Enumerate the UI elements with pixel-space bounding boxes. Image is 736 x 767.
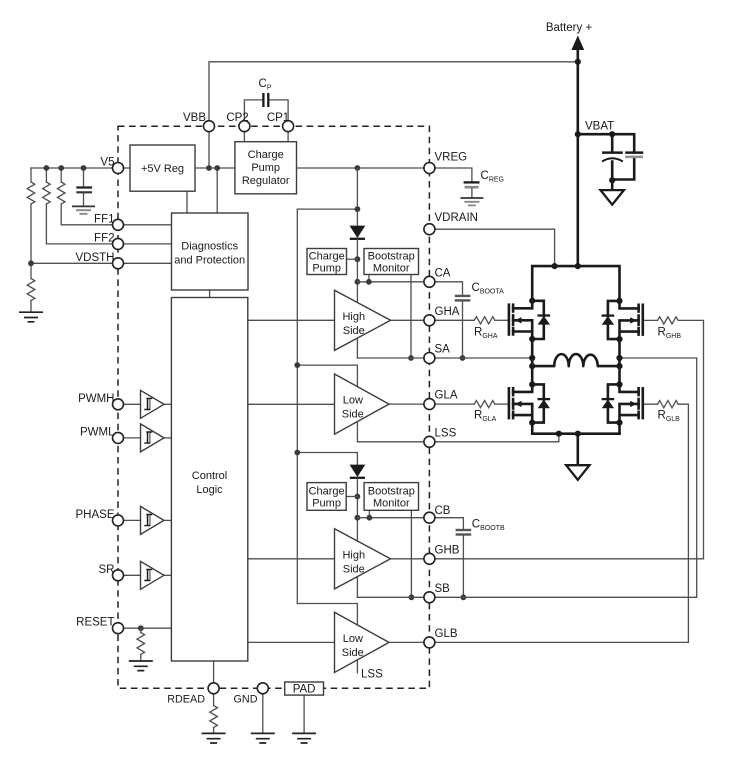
wire internal rail vertical (296, 209, 298, 603)
svg-text:LSS: LSS (435, 427, 457, 439)
svg-text:LSS: LSS (361, 669, 383, 681)
pin FF2 (113, 238, 124, 249)
ground GND pin (251, 733, 275, 743)
wire charge pump B link (346, 496, 357, 498)
node bootstrap monitor B SB tap (409, 594, 415, 600)
wire left leg lower (531, 423, 534, 434)
svg-text:VBB: VBB (183, 112, 206, 124)
wire V5 rail left (31, 167, 118, 169)
wire CA to CBOOTA (429, 282, 462, 295)
svg-text:Side: Side (342, 647, 364, 659)
pin SA (424, 353, 435, 364)
wire charge pump chain B (297, 453, 357, 465)
svg-text:VDSTH: VDSTH (76, 252, 115, 264)
wire PWMH input (118, 403, 141, 405)
pin CB (424, 512, 435, 523)
diode charge pump A (350, 226, 366, 282)
svg-text:GLB: GLB (435, 628, 458, 640)
wire control to low side A (248, 403, 335, 405)
block 5V regulator (130, 145, 195, 191)
pin VREG (424, 163, 435, 174)
svg-text:Bootstrap: Bootstrap (368, 486, 415, 498)
pin SR (113, 570, 124, 581)
svg-text:Logic: Logic (196, 484, 223, 496)
svg-text:and Protection: and Protection (174, 255, 245, 267)
svg-text:VDRAIN: VDRAIN (435, 212, 478, 224)
wire RGHB to gate (643, 319, 658, 321)
svg-text:PHASE: PHASE (76, 509, 115, 521)
wire bridge top bus (532, 266, 619, 301)
wire GHA internal (391, 319, 430, 321)
pin PWMH (113, 399, 124, 410)
pin CP1 (283, 121, 294, 132)
node LSS bus tap (556, 431, 562, 437)
block diagnostics and protection (172, 213, 249, 290)
op-amp high side driver B (335, 529, 391, 589)
svg-text:RDEAD: RDEAD (167, 694, 205, 706)
block charge pump B (307, 483, 346, 511)
wire charge pump A link (347, 258, 358, 260)
ground RDEAD (202, 733, 226, 743)
node VBB supply junction (206, 165, 212, 171)
svg-text:Monitor: Monitor (373, 498, 410, 510)
wire V5 pin to 5V reg (118, 167, 130, 169)
wire VDSTH into diagnostics (118, 262, 172, 264)
wire VBAT cap branch (578, 134, 634, 180)
wire CP1 into regulator (287, 126, 289, 142)
wire CP1 lead (268, 100, 288, 126)
node charge pump A tap (355, 256, 361, 262)
wire VBB into IC (208, 126, 210, 168)
pin CA (424, 276, 435, 287)
svg-text:CP2: CP2 (226, 112, 248, 124)
wire PWML buffer out (164, 437, 171, 439)
wire bridge ground stub (576, 434, 579, 465)
svg-text:Charge: Charge (309, 486, 345, 498)
wire PAD to ground (303, 695, 305, 733)
transistor low side A (509, 381, 550, 425)
pin RESET (113, 623, 124, 634)
wire control logic to RDEAD (213, 661, 215, 688)
wire CP2 lead (244, 100, 263, 126)
capacitor V5 bypass (76, 168, 92, 206)
op-amp low side driver B (335, 612, 390, 672)
wire top VBB-to-battery bus (209, 62, 578, 126)
wire GLA gate (429, 403, 474, 405)
wire LSS external (429, 434, 558, 442)
svg-text:Charge: Charge (309, 251, 345, 263)
wire bootstrap monitor A to SA (410, 275, 412, 359)
capacitor CP pump (263, 93, 268, 107)
wire CA feed to high side A (356, 282, 358, 358)
node VDRAIN bus tap (552, 263, 558, 269)
pin V5 (113, 163, 124, 174)
wire control to high side A (248, 319, 335, 321)
capacitor ceramic (625, 153, 643, 157)
svg-text:VREG: VREG (435, 151, 468, 163)
ground VDSTH divider (19, 312, 43, 322)
wire RESET input (118, 627, 171, 629)
resistor RGHA (474, 317, 495, 324)
svg-text:PWML: PWML (80, 426, 115, 438)
node V5 rail R2 (44, 165, 50, 171)
block charge pump A (307, 249, 347, 275)
block PAD (285, 682, 324, 696)
node internal rail chain B (294, 450, 300, 456)
resistor left pullup 3 (57, 168, 118, 225)
pin CP2 (239, 121, 250, 132)
pin FF1 (113, 219, 124, 230)
wire control to low side B (248, 641, 335, 643)
wire PHASE buffer out (164, 519, 171, 521)
wire 5V reg output to charge pump regulator (195, 167, 235, 169)
resistor left pullup 2 (43, 168, 118, 244)
svg-text:RESET: RESET (76, 617, 114, 629)
svg-text:V5: V5 (100, 157, 114, 169)
svg-text:High: High (342, 549, 365, 561)
resistor RESET pulldown (137, 628, 145, 660)
wire FF1 into diagnostics (118, 224, 172, 226)
wire FF2 into diagnostics (118, 243, 172, 245)
svg-text:CA: CA (435, 267, 451, 279)
capacitor CBOOTB (456, 530, 472, 597)
wire PWML input (118, 437, 141, 439)
wire charge pump chain A (356, 168, 358, 226)
wire SA external (429, 357, 532, 359)
buffer SR (141, 561, 165, 589)
svg-text:Control: Control (192, 470, 227, 482)
pin VDRAIN (424, 224, 435, 235)
svg-text:SR: SR (99, 564, 115, 576)
node CBOOTA on SA (460, 355, 466, 361)
block charge pump regulator (235, 142, 297, 194)
svg-text:CB: CB (435, 505, 451, 517)
wire VDSTH (31, 262, 118, 264)
pin SB (424, 592, 435, 603)
wire RGLA to gate (495, 403, 509, 405)
pin PWML (113, 432, 124, 443)
svg-text:PAD: PAD (293, 684, 316, 696)
node chain rail corner (355, 206, 361, 212)
node cap ground junction (609, 177, 615, 183)
pin RDEAD (208, 683, 219, 694)
wire RGLB to gate (643, 403, 658, 405)
wire cap ground stub (611, 180, 614, 189)
svg-text:Diagnostics: Diagnostics (181, 241, 238, 253)
ground VBAT caps (601, 190, 624, 205)
svg-text:GHA: GHA (435, 306, 460, 318)
wire SB line internal (357, 596, 429, 598)
node RESET pulldown tap (138, 625, 144, 631)
pin PHASE (113, 515, 124, 526)
capacitor CREG (464, 182, 480, 197)
node CA chain junction (355, 279, 361, 285)
node VBAT cap branch (609, 131, 615, 137)
ground CREG (460, 198, 483, 205)
transistor high side B (602, 298, 643, 342)
wire SR buffer out (164, 574, 171, 576)
node bootstrap monitor A SA tap (408, 355, 414, 361)
wire SA line internal (357, 357, 429, 359)
wire VBAT rail (576, 48, 579, 266)
node bootstrap monitor A CA tap (366, 279, 372, 285)
pin GHB (424, 553, 435, 564)
buffer PWML (141, 424, 165, 452)
wire LSS line internal (357, 441, 429, 443)
ground bridge (566, 465, 589, 480)
svg-text:Low: Low (343, 633, 363, 645)
node internal rail low side A (294, 362, 300, 368)
wire VREG to CREG (429, 168, 472, 182)
ground RESET pulldown (129, 661, 153, 671)
wire low side B feed (297, 604, 357, 673)
block control logic (171, 298, 247, 662)
svg-text:Side: Side (342, 409, 364, 421)
wire CB feed to high side B (356, 518, 358, 598)
wire control to high side B (248, 558, 335, 560)
wire GND pin to ground (262, 694, 264, 733)
svg-text:GHB: GHB (435, 544, 460, 556)
node bootstrap monitor B CB tap (367, 515, 373, 521)
svg-text:Battery +: Battery + (546, 22, 593, 34)
node SA on left leg (529, 355, 535, 361)
pin GLA (424, 399, 435, 410)
svg-text:High: High (342, 311, 365, 323)
wire low side A feed (297, 365, 357, 442)
capacitor CBOOTA (455, 296, 471, 358)
wire VDRAIN sense (429, 229, 554, 266)
block bootstrap monitor A (364, 249, 419, 275)
svg-text:+5V Reg: +5V Reg (141, 163, 184, 175)
node VBAT tap (575, 131, 581, 137)
svg-text:Low: Low (343, 395, 363, 407)
svg-text:VBAT: VBAT (585, 121, 614, 133)
ground V5 cap (72, 206, 95, 213)
svg-text:Pump: Pump (251, 162, 280, 174)
wire VREG output line (297, 167, 430, 169)
node SB on right leg (616, 355, 622, 361)
wire CA line (357, 281, 429, 283)
resistor left pullup 1 (27, 168, 35, 263)
node CB chain junction (355, 515, 361, 521)
node battery top bus (575, 59, 581, 65)
resistor VDSTH lower divider (27, 263, 35, 311)
wire GLA internal (389, 403, 429, 405)
IC boundary dashed box (118, 126, 429, 688)
inductor motor load (532, 354, 619, 366)
wire GHB gate loop (429, 320, 703, 558)
svg-text:PWMH: PWMH (78, 393, 114, 405)
wire chain to internal rail (297, 208, 357, 210)
pin VBB (204, 121, 215, 132)
wire bootstrap monitor A to CA (368, 275, 370, 282)
battery arrow (571, 36, 584, 51)
svg-text:SA: SA (435, 344, 451, 356)
wire GHA gate (429, 319, 474, 321)
wire CB line (357, 517, 429, 519)
svg-text:Monitor: Monitor (373, 263, 410, 275)
svg-text:Side: Side (343, 325, 365, 337)
node ground bus tap (575, 431, 581, 437)
svg-text:Pump: Pump (312, 498, 341, 510)
pin GLB (424, 637, 435, 648)
wire CB to CBOOTB (429, 518, 463, 529)
svg-text:GND: GND (234, 694, 258, 706)
svg-text:FF1: FF1 (94, 213, 114, 225)
svg-text:Charge: Charge (248, 149, 284, 161)
diode charge pump B (350, 465, 366, 518)
node charge pump B tap (355, 494, 361, 500)
resistor RDEAD (210, 694, 218, 733)
wire supply to diagnostics (216, 168, 218, 213)
svg-text:GLA: GLA (435, 390, 458, 402)
node VREG chain tap (355, 165, 361, 171)
wire bootstrap monitor B to SB (410, 510, 412, 597)
svg-text:Pump: Pump (312, 263, 341, 275)
resistor RGHB (658, 317, 679, 324)
wire right leg lower (618, 423, 621, 434)
ground PAD (292, 733, 316, 743)
capacitor bulk electrolytic (602, 153, 623, 162)
node V5 rail R3 (58, 165, 64, 171)
node V5 rail cap (81, 165, 87, 171)
svg-text:SB: SB (435, 583, 451, 595)
wire 5V reg to diagnostics (186, 191, 188, 213)
wire left leg phase A (531, 339, 534, 384)
resistor RGLA (474, 401, 495, 408)
node coil left (529, 363, 535, 369)
wire bootstrap monitor B to CB (368, 510, 370, 517)
node supply diagnostics tap (214, 165, 220, 171)
wire GLB internal (389, 641, 429, 643)
svg-text:FF2: FF2 (94, 232, 114, 244)
wire GLB gate loop (429, 404, 688, 642)
op-amp low side driver A (335, 374, 390, 434)
node CBOOTB on SB (461, 594, 467, 600)
wire CP2 into regulator (243, 126, 245, 142)
svg-text:Regulator: Regulator (242, 175, 290, 187)
wire PWMH buffer out (164, 403, 171, 405)
node VDSTH divider junction (28, 260, 34, 266)
resistor RGLB (658, 401, 679, 408)
svg-text:Bootstrap: Bootstrap (368, 251, 415, 263)
wire right leg phase B (618, 339, 621, 384)
wire PHASE input (118, 519, 141, 521)
buffer PHASE (141, 506, 165, 534)
block bootstrap monitor B (364, 483, 418, 511)
node VBAT bus tap (575, 263, 581, 269)
wire SR input (118, 574, 141, 576)
transistor high side A (509, 298, 550, 342)
pin VDSTH (113, 258, 124, 269)
svg-text:CP1: CP1 (267, 112, 289, 124)
wire SB external loop (429, 358, 696, 597)
wire diagnostics to control logic (209, 290, 211, 298)
wire GHB internal (391, 558, 430, 560)
transistor low side B (602, 381, 643, 425)
wire RGHA to gate (495, 319, 509, 321)
op-amp high side driver A (335, 290, 391, 350)
wire bridge bottom bus (532, 432, 619, 435)
pin LSS (424, 436, 435, 447)
pin GHA (424, 315, 435, 326)
buffer PWMH (141, 390, 165, 418)
pin GND (257, 683, 268, 694)
node coil right (616, 363, 622, 369)
svg-text:Side: Side (343, 563, 365, 575)
